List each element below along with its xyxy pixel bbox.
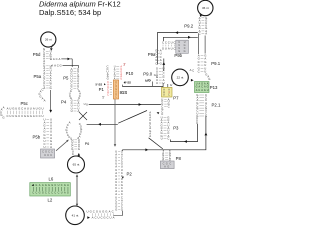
svg-text:G: G	[105, 209, 107, 213]
svg-text:G: G	[162, 46, 164, 50]
loop 65 nt	[68, 156, 85, 173]
svg-text:L6: L6	[49, 177, 54, 182]
svg-text:G: G	[208, 77, 210, 81]
wire A: P3 to P2.1 left strand	[170, 124, 197, 142]
svg-text:G: G	[184, 50, 186, 53]
svg-text:A: A	[44, 99, 46, 103]
svg-text:C: C	[21, 114, 23, 118]
svg-text:C: C	[173, 41, 175, 45]
svg-text:U: U	[44, 153, 46, 157]
svg-text:U: U	[196, 121, 198, 125]
tertiary interaction double arrow L6-L2	[76, 175, 78, 206]
arrow up on P2.1 right wire	[205, 133, 208, 136]
svg-text:41 nt: 41 nt	[72, 213, 79, 217]
svg-text:P10: P10	[126, 71, 134, 76]
svg-text:C: C	[42, 150, 44, 154]
svg-text:G: G	[115, 208, 117, 212]
svg-text:3'-SS: 3'-SS	[124, 81, 131, 85]
svg-text:L2: L2	[48, 198, 53, 203]
wire W1 from P9.0 to P9.2	[157, 33, 197, 65]
svg-text:U: U	[198, 89, 200, 92]
svg-text:U: U	[71, 109, 73, 113]
svg-text:U: U	[120, 78, 122, 81]
svg-text:P2: P2	[127, 172, 133, 177]
svg-text:G: G	[39, 192, 41, 195]
svg-text:C: C	[41, 88, 43, 92]
svg-text:P5: P5	[63, 76, 69, 81]
svg-text:C: C	[167, 137, 169, 141]
svg-text:P5d: P5d	[33, 52, 41, 57]
svg-text:U: U	[36, 107, 38, 111]
arrow into P5d	[51, 45, 52, 49]
svg-text:C: C	[50, 57, 52, 61]
svg-text:P3: P3	[173, 125, 179, 130]
svg-text:C: C	[94, 216, 96, 220]
svg-text:A: A	[53, 57, 55, 61]
svg-text:P1: P1	[99, 87, 105, 92]
label 3-prime-SS	[124, 82, 126, 84]
IGS box (orange)	[113, 80, 118, 99]
svg-text:A: A	[149, 134, 151, 138]
svg-text:G: G	[167, 164, 169, 168]
svg-text:5': 5'	[102, 95, 105, 99]
arrow into P13	[191, 79, 194, 82]
svg-text:C: C	[162, 41, 164, 45]
svg-text:C: C	[35, 192, 37, 195]
svg-text:C: C	[61, 184, 63, 187]
svg-text:C: C	[54, 184, 56, 187]
svg-text:P9.0: P9.0	[143, 72, 152, 77]
svg-text:P6: P6	[85, 142, 89, 146]
svg-text:U: U	[171, 46, 173, 50]
svg-text:36 nt: 36 nt	[202, 6, 209, 10]
svg-text:P8: P8	[176, 156, 182, 161]
svg-text:22 nt: 22 nt	[177, 76, 184, 80]
svg-text:A: A	[173, 82, 175, 86]
svg-text:U: U	[27, 107, 29, 111]
terminal loop box P8 (gray)	[160, 161, 174, 169]
svg-text:G: G	[18, 107, 20, 111]
svg-text:C: C	[54, 192, 56, 195]
svg-text:P9b: P9b	[174, 53, 182, 58]
svg-text:C: C	[57, 64, 59, 68]
svg-text:A: A	[7, 107, 9, 111]
svg-text:C: C	[18, 114, 20, 118]
svg-text:26 nt: 26 nt	[45, 38, 52, 42]
loop 22 nt	[172, 69, 189, 86]
svg-text:G: G	[45, 184, 47, 187]
svg-text:C: C	[168, 41, 170, 45]
svg-text:U: U	[86, 103, 88, 107]
svg-text:U: U	[165, 46, 167, 50]
svg-text:C: C	[173, 46, 175, 50]
svg-text:P5a: P5a	[34, 74, 42, 79]
svg-text:U: U	[61, 192, 63, 195]
svg-text:A: A	[43, 86, 45, 90]
svg-text:A: A	[164, 164, 166, 168]
strand arrow inside P5 stack	[50, 90, 52, 111]
loop L5d 26 nt	[41, 32, 56, 47]
svg-text:U: U	[171, 41, 173, 45]
svg-text:G: G	[160, 62, 162, 66]
omegaG branch	[152, 82, 154, 87]
P7 stubs and bracket	[162, 83, 164, 87]
svg-text:C: C	[106, 216, 108, 220]
svg-text:A: A	[168, 46, 170, 50]
svg-text:U: U	[30, 107, 32, 111]
svg-text:P5b: P5b	[33, 135, 41, 140]
svg-text:G: G	[27, 114, 29, 118]
diagonal wire J to P8/line B	[149, 138, 163, 149]
svg-text:C: C	[198, 70, 200, 74]
svg-text:IGS: IGS	[120, 90, 128, 95]
strand crossing below P4	[79, 112, 87, 120]
svg-text:C: C	[45, 192, 47, 195]
terminal loop box P9b (gray)	[176, 40, 189, 53]
svg-text:U: U	[47, 153, 49, 157]
svg-text:U: U	[86, 209, 88, 213]
svg-text:A: A	[33, 114, 35, 118]
svg-text:A: A	[50, 145, 52, 149]
svg-text:U: U	[12, 114, 14, 118]
svg-text:A: A	[109, 209, 111, 213]
svg-text:C: C	[168, 105, 170, 109]
wire 5-prime exon down from IGS	[114, 99, 116, 145]
svg-text:P4: P4	[61, 100, 67, 105]
svg-text:C: C	[51, 150, 53, 154]
svg-text:A: A	[24, 107, 26, 111]
svg-text:U: U	[156, 81, 158, 85]
arrow into P9.2	[200, 14, 202, 15]
svg-text:U: U	[162, 81, 164, 85]
svg-text:G: G	[39, 107, 41, 111]
svg-text:U: U	[50, 153, 52, 157]
svg-text:C: C	[165, 41, 167, 45]
svg-text:C: C	[36, 114, 38, 118]
svg-text:U: U	[9, 114, 11, 118]
svg-text:65 nt: 65 nt	[73, 163, 80, 167]
svg-text:C: C	[107, 93, 109, 96]
svg-text:G: G	[12, 107, 14, 111]
svg-text:C: C	[32, 192, 34, 195]
svg-text:G: G	[51, 184, 53, 187]
svg-text:P9.1: P9.1	[211, 61, 220, 66]
svg-text:A: A	[33, 107, 35, 111]
svg-text:C: C	[72, 152, 74, 156]
svg-text:Dalp.S516; 534 bp: Dalp.S516; 534 bp	[39, 8, 101, 17]
svg-text:G: G	[121, 208, 123, 212]
arrow into loop right strand	[78, 154, 80, 157]
svg-text:C: C	[58, 192, 60, 195]
svg-text:C: C	[199, 32, 201, 36]
tertiary contact arrow P5b to P6	[56, 141, 68, 151]
loop 41 nt	[66, 206, 85, 225]
svg-text:A: A	[58, 57, 60, 61]
svg-text:U: U	[109, 216, 111, 220]
svg-text:P5c: P5c	[21, 101, 29, 106]
svg-text:G: G	[103, 216, 105, 220]
svg-text:A: A	[205, 32, 207, 36]
svg-text:G: G	[42, 192, 44, 195]
svg-text:U: U	[99, 209, 101, 213]
svg-text:U: U	[207, 89, 209, 92]
svg-text:C: C	[48, 192, 50, 195]
svg-text:P9.2: P9.2	[184, 24, 193, 29]
svg-text:G: G	[15, 114, 17, 118]
svg-text:U: U	[41, 107, 43, 111]
svg-text:C: C	[93, 209, 95, 213]
svg-text:3': 3'	[123, 62, 126, 66]
svg-text:C: C	[6, 114, 8, 118]
wire J to P7 region	[89, 104, 161, 106]
svg-text:U: U	[161, 137, 163, 141]
wire 3-prime strand to omegaG and P7	[121, 85, 123, 87]
svg-text:G: G	[60, 64, 62, 68]
strand arrow on P2	[122, 177, 124, 179]
svg-text:A: A	[3, 106, 5, 110]
diagonal wire to J3/4 strand	[118, 111, 147, 124]
svg-text:C: C	[56, 57, 58, 61]
loop 36 nt	[198, 0, 213, 15]
wire J with left arrow at P4	[87, 123, 118, 125]
wire B: P2 to P2.1 right strand	[123, 117, 206, 151]
svg-text:C: C	[21, 107, 23, 111]
svg-text:G: G	[50, 86, 52, 90]
svg-text:G: G	[67, 192, 69, 195]
svg-text:G: G	[170, 83, 172, 87]
svg-text:G: G	[78, 147, 80, 151]
svg-text:A: A	[92, 216, 94, 220]
P13 box (green)	[195, 82, 210, 93]
exit arrow of L2	[87, 216, 90, 219]
svg-text:C: C	[51, 192, 53, 195]
svg-text:P2.1: P2.1	[212, 102, 221, 107]
plain strand lines between P9.2 and P9.1	[197, 34, 199, 55]
svg-text:G: G	[64, 184, 66, 187]
svg-text:A: A	[54, 64, 56, 68]
svg-text:U: U	[97, 216, 99, 220]
svg-text:C: C	[115, 96, 117, 99]
svg-text:G: G	[48, 184, 50, 187]
svg-text:G: G	[24, 114, 26, 118]
P7 box (yellow)	[162, 87, 173, 97]
svg-text:U: U	[9, 107, 11, 111]
svg-text:C: C	[192, 69, 194, 73]
svg-text:U: U	[43, 145, 45, 149]
svg-text:A: A	[113, 216, 115, 220]
svg-text:G: G	[45, 150, 47, 154]
svg-text:G: G	[35, 184, 37, 187]
wire W2 inner with right arrow	[164, 37, 198, 41]
svg-text:G: G	[2, 115, 4, 119]
P8 stubs	[162, 150, 164, 152]
svg-text:C: C	[100, 216, 102, 220]
svg-text:C: C	[39, 114, 41, 118]
svg-text:C: C	[48, 150, 50, 154]
svg-text:G: G	[102, 209, 104, 213]
svg-text:C: C	[112, 209, 114, 213]
terminal loop box of P5b (gray)	[41, 149, 55, 158]
svg-text:C: C	[155, 62, 157, 66]
svg-text:C: C	[169, 161, 171, 165]
wire at P2 bottom right	[114, 211, 123, 216]
svg-text:G: G	[30, 114, 32, 118]
svg-text:P13: P13	[210, 85, 218, 90]
svg-text:U: U	[15, 107, 17, 111]
svg-text:G: G	[107, 77, 109, 81]
svg-text:ωG: ωG	[145, 78, 151, 82]
svg-text:5'-SS: 5'-SS	[96, 82, 103, 86]
svg-text:A: A	[69, 121, 71, 125]
exit arrow of intron 3-prime end	[163, 59, 165, 72]
svg-text:P7: P7	[173, 96, 179, 101]
svg-text:G: G	[96, 209, 98, 213]
svg-text:G: G	[204, 89, 206, 92]
svg-text:U: U	[58, 184, 60, 187]
svg-text:P9a: P9a	[148, 52, 156, 57]
svg-text:G: G	[90, 209, 92, 213]
